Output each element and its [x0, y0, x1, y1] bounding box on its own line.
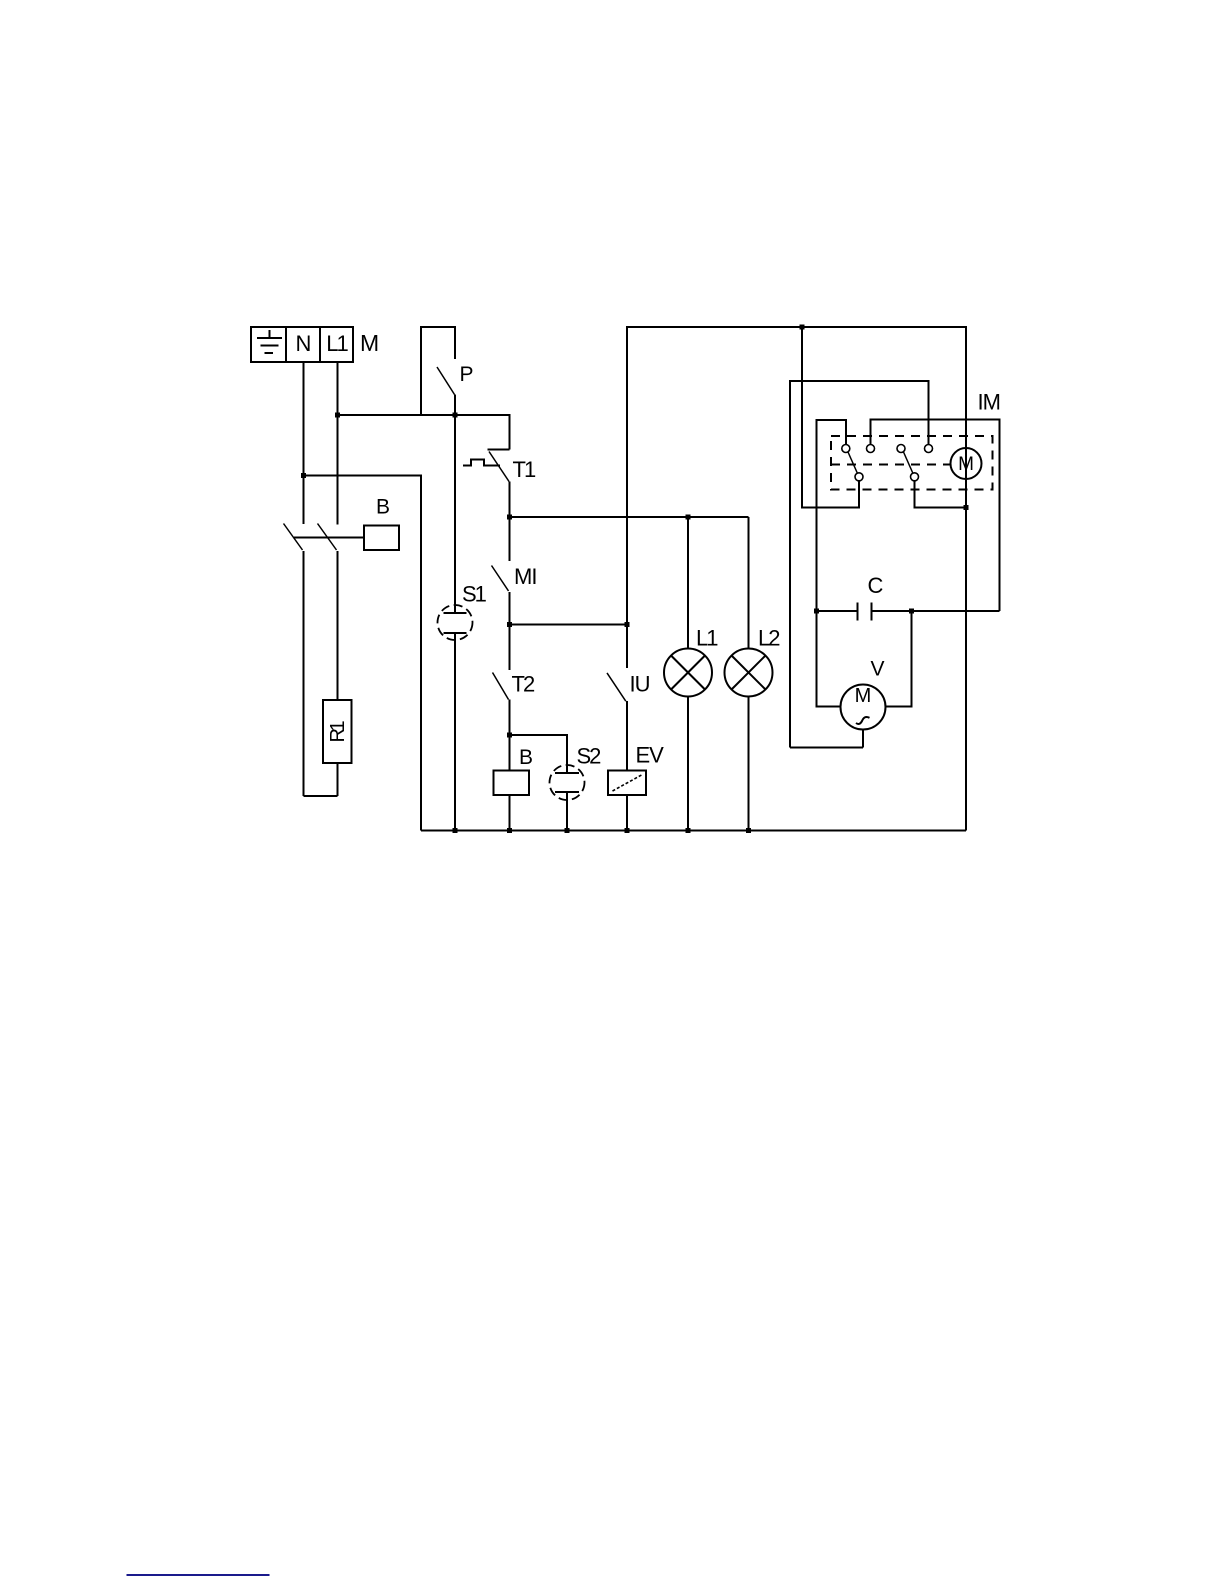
svg-text:C: C — [868, 573, 884, 598]
svg-text:EV: EV — [636, 743, 665, 768]
svg-text:MI: MI — [514, 564, 536, 589]
svg-text:B: B — [376, 496, 390, 519]
svg-text:T1: T1 — [513, 457, 536, 482]
svg-text:L2: L2 — [758, 626, 780, 651]
svg-text:S1: S1 — [462, 582, 487, 607]
svg-text:R1: R1 — [327, 721, 349, 743]
svg-text:N: N — [296, 331, 312, 356]
svg-text:IM: IM — [978, 390, 1000, 415]
svg-text:T2: T2 — [512, 672, 535, 697]
svg-text:IU: IU — [630, 672, 650, 697]
svg-text:M: M — [360, 330, 379, 356]
svg-text:B: B — [519, 746, 533, 769]
svg-text:S2: S2 — [577, 744, 602, 769]
svg-text:M: M — [958, 454, 974, 475]
svg-text:M: M — [855, 685, 872, 707]
svg-text:L1: L1 — [326, 331, 348, 356]
svg-text:P: P — [460, 363, 474, 386]
svg-text:V: V — [871, 658, 885, 681]
svg-text:L1: L1 — [696, 626, 718, 651]
